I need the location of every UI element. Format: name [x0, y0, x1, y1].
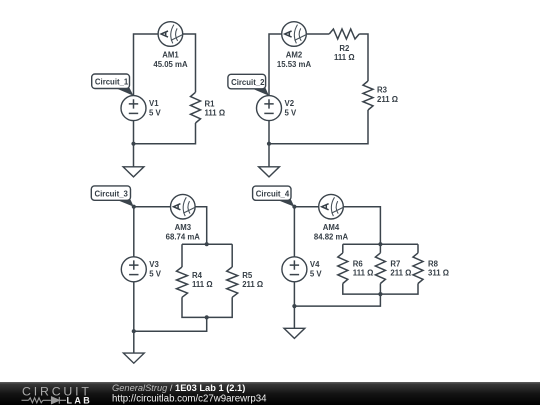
- svg-text:111 Ω: 111 Ω: [205, 109, 226, 118]
- svg-text:111 Ω: 111 Ω: [192, 280, 213, 289]
- svg-text:R2: R2: [339, 44, 350, 53]
- svg-text:Circuit_4: Circuit_4: [256, 189, 290, 198]
- svg-text:5 V: 5 V: [285, 108, 298, 117]
- svg-text:R1: R1: [205, 99, 216, 108]
- svg-text:AM1: AM1: [162, 51, 179, 60]
- svg-text:Circuit_3: Circuit_3: [95, 189, 129, 198]
- svg-text:45.05 mA: 45.05 mA: [153, 60, 188, 69]
- svg-text:5 V: 5 V: [149, 108, 162, 117]
- svg-text:211 Ω: 211 Ω: [242, 280, 263, 289]
- svg-text:15.53 mA: 15.53 mA: [277, 60, 312, 69]
- svg-text:R3: R3: [377, 86, 388, 95]
- svg-text:R7: R7: [390, 259, 400, 268]
- svg-text:V4: V4: [310, 260, 320, 269]
- svg-text:Circuit_1: Circuit_1: [95, 78, 129, 87]
- svg-text:Circuit_2: Circuit_2: [231, 78, 265, 87]
- svg-text:68.74 mA: 68.74 mA: [166, 233, 201, 242]
- svg-text:LAB: LAB: [67, 396, 92, 405]
- svg-text:V2: V2: [285, 99, 295, 108]
- svg-text:211 Ω: 211 Ω: [377, 95, 398, 104]
- svg-text:AM2: AM2: [286, 51, 303, 60]
- svg-text:R4: R4: [192, 271, 203, 280]
- svg-text:211 Ω: 211 Ω: [390, 269, 411, 278]
- svg-text:84.82 mA: 84.82 mA: [314, 233, 349, 242]
- svg-text:http://circuitlab.com/c27w9are: http://circuitlab.com/c27w9arewrp34: [112, 394, 267, 405]
- svg-text:R6: R6: [353, 259, 364, 268]
- svg-text:111 Ω: 111 Ω: [334, 53, 355, 62]
- svg-text:AM3: AM3: [175, 223, 192, 232]
- svg-text:V1: V1: [149, 99, 159, 108]
- svg-text:5 V: 5 V: [149, 270, 162, 279]
- svg-text:V3: V3: [149, 260, 159, 269]
- svg-text:311 Ω: 311 Ω: [428, 269, 449, 278]
- svg-text:5 V: 5 V: [310, 270, 323, 279]
- svg-text:111 Ω: 111 Ω: [353, 269, 374, 278]
- svg-text:AM4: AM4: [323, 223, 340, 232]
- svg-text:R8: R8: [428, 259, 439, 268]
- svg-text:R5: R5: [242, 271, 253, 280]
- svg-text:GeneralStrug / 1E03 Lab 1 (2.1: GeneralStrug / 1E03 Lab 1 (2.1): [112, 383, 245, 393]
